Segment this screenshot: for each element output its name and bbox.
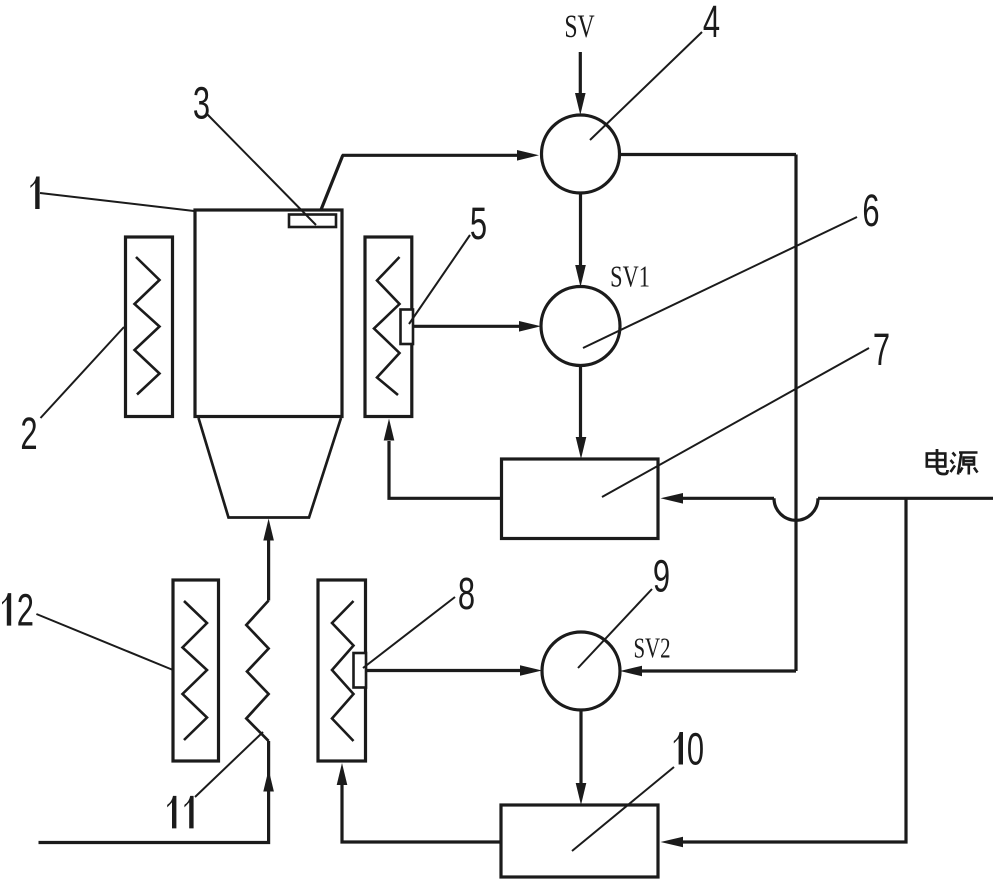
arrowhead power into controller 10 [661, 837, 684, 848]
heater 12 coil zigzag [183, 601, 208, 740]
leader line 8 [363, 597, 455, 668]
arrowhead bus into circle 9 right [620, 666, 642, 677]
wire tank top to circle 4 [321, 155, 520, 211]
power label 电 [927, 449, 948, 474]
wire circle 9 to controller 10 [579, 710, 582, 784]
arrowhead feed into funnel [263, 519, 274, 541]
tank 1 (drying barrel body) [195, 210, 342, 417]
svg-text:8: 8 [458, 569, 475, 619]
zigzag conveyor 11 [246, 601, 268, 742]
wire vertical bus x=796 down to circle 9 level [794, 155, 797, 672]
svg-text:7: 7 [873, 325, 890, 375]
arrowhead sensor 5 into circle 6 [519, 321, 541, 332]
leader line 4 [590, 32, 702, 140]
label 10 [674, 732, 683, 765]
arrowhead into circle 4 left [517, 150, 539, 161]
leader line 12 [36, 614, 173, 670]
material feed line bottom left [39, 741, 269, 843]
temperature detector 3 (small rect at tank top) [289, 215, 336, 228]
right heater coil zigzag [374, 257, 400, 395]
arrowhead circle 4 to circle 6 [575, 265, 586, 287]
label 1 [30, 177, 39, 210]
svg-text:0: 0 [687, 725, 704, 775]
svg-text:9: 9 [653, 552, 670, 602]
heater with sensor 8 (lower-right heating jacket) [318, 580, 366, 761]
feed line riser into funnel [267, 540, 270, 601]
leader line 1 [40, 193, 194, 211]
wire sensor 8 to circle 9 [366, 669, 521, 672]
leader line 5 [409, 235, 470, 324]
power drop line to controller 10 [681, 498, 907, 842]
svg-text:2: 2 [20, 409, 37, 459]
leader line 7 [602, 348, 869, 497]
sensor 8 (temperature sensor rect) [354, 653, 367, 688]
leader line 10 [572, 767, 674, 851]
comparator circle 6 [541, 287, 620, 366]
power line right segment [818, 497, 993, 500]
arrowhead circle 6 into controller 7 [576, 437, 587, 459]
svg-text:SV1: SV1 [610, 259, 650, 293]
svg-text:SV2: SV2 [633, 632, 670, 664]
wire controller 10 to heater 8 [342, 785, 501, 842]
power label 源 [951, 453, 978, 475]
arrowhead into heater 8 bottom [337, 763, 348, 785]
wire circle 4 to circle 6 [579, 193, 582, 266]
wire controller 7 to heater 5 [389, 441, 502, 498]
hop semicircle over bus [774, 498, 818, 520]
controller box 7 [502, 459, 659, 539]
arrowhead power into controller 7 [661, 493, 684, 504]
wire circle 4 right to vertical bus [620, 153, 797, 156]
sensor 5 (temperature sensor rect) [401, 310, 414, 345]
controller box 10 [501, 805, 658, 877]
heater with sensor 5 (right heating jacket) [365, 237, 412, 417]
power line into controller 7 (with hop) [681, 497, 775, 500]
leader line 9 [578, 589, 652, 668]
comparator circle 9 [542, 632, 620, 710]
svg-text:4: 4 [703, 0, 720, 48]
heater 2 (left heating jacket) [126, 237, 173, 417]
label 12 [2, 593, 11, 626]
comparator circle 4 [542, 115, 620, 193]
lower-right heater coil zigzag [332, 601, 354, 741]
heater 2 coil zigzag [135, 257, 160, 395]
svg-text:2: 2 [17, 586, 34, 636]
svg-text:6: 6 [862, 186, 879, 236]
leader line 6 [583, 217, 857, 348]
arrowhead circle 9 into controller 10 [576, 783, 587, 805]
wire circle 6 to controller 7 [579, 366, 582, 439]
svg-text:SV: SV [564, 8, 595, 45]
wire SV input to circle 4 [579, 52, 582, 94]
tank 1 funnel (cone bottom) [199, 418, 342, 518]
wire bus to circle 9 right arrow [642, 669, 796, 672]
arrowhead sensor 8 into circle 9 left [520, 665, 542, 676]
arrowhead on feed riser [263, 770, 274, 792]
leader line 3 [207, 114, 316, 225]
svg-text:5: 5 [470, 199, 487, 249]
heater 12 (lower-left heating jacket) [173, 580, 219, 761]
arrowhead into heater 5 bottom [384, 419, 395, 441]
wire sensor 5 to circle 6 [413, 325, 520, 328]
label 11 [167, 796, 176, 829]
leader line 11 [195, 732, 263, 797]
arrowhead SV into circle 4 [575, 93, 586, 115]
leader line 2 [41, 327, 125, 418]
svg-text:3: 3 [193, 79, 210, 129]
